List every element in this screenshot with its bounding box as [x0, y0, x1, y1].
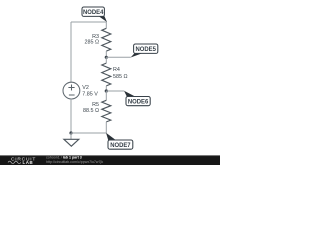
svg-text:7.85 V: 7.85 V — [82, 91, 98, 97]
wire bottom horizontal — [71, 132, 106, 134]
junction node between R3 and R4 — [105, 56, 108, 59]
CircuitLab logo — [8, 157, 36, 165]
junction node at ground tee — [69, 131, 72, 134]
svg-text:585 Ω: 585 Ω — [113, 74, 128, 80]
voltage source V2 — [63, 82, 98, 99]
footer bar — [0, 155, 220, 165]
wire top horizontal — [71, 21, 106, 23]
svg-text:R4: R4 — [113, 67, 120, 73]
wire R4 bottom stub — [105, 86, 107, 91]
svg-text:NODE7: NODE7 — [110, 142, 131, 149]
footer credit text — [46, 156, 103, 164]
wire R3 bottom stub — [105, 51, 107, 57]
wire R5 top stub — [105, 91, 107, 100]
resistor R4 — [102, 63, 128, 86]
wire below V2 — [70, 99, 72, 133]
svg-text:R5: R5 — [92, 102, 99, 108]
wire R5 bottom stub — [105, 122, 107, 133]
ground — [64, 133, 79, 146]
svg-text:NODE5: NODE5 — [136, 46, 157, 53]
wire left vertical — [70, 22, 72, 82]
node label NODE6 — [124, 91, 150, 106]
resistor R5 — [83, 100, 111, 122]
wire to NODE5 — [106, 56, 131, 58]
node label NODE5 — [131, 44, 158, 58]
svg-text:V2: V2 — [82, 85, 89, 91]
svg-text:NODE6: NODE6 — [128, 98, 149, 105]
svg-text:http://circuitlab.com/c/ppwx7l: http://circuitlab.com/c/ppwx7lu7w7jk — [46, 160, 103, 164]
wire to NODE6 — [106, 90, 124, 92]
junction node between R4 and R5 — [105, 89, 108, 92]
svg-text:88.5 Ω: 88.5 Ω — [83, 108, 99, 114]
node label NODE4 — [82, 7, 107, 22]
svg-text:285 Ω: 285 Ω — [84, 39, 99, 45]
resistor R3 — [84, 28, 110, 51]
svg-text:NODE4: NODE4 — [83, 9, 104, 16]
node label NODE7 — [106, 133, 133, 149]
wire R3 top stub — [105, 22, 107, 29]
svg-text:LAB: LAB — [23, 160, 34, 165]
wire R4 top stub — [105, 57, 107, 63]
